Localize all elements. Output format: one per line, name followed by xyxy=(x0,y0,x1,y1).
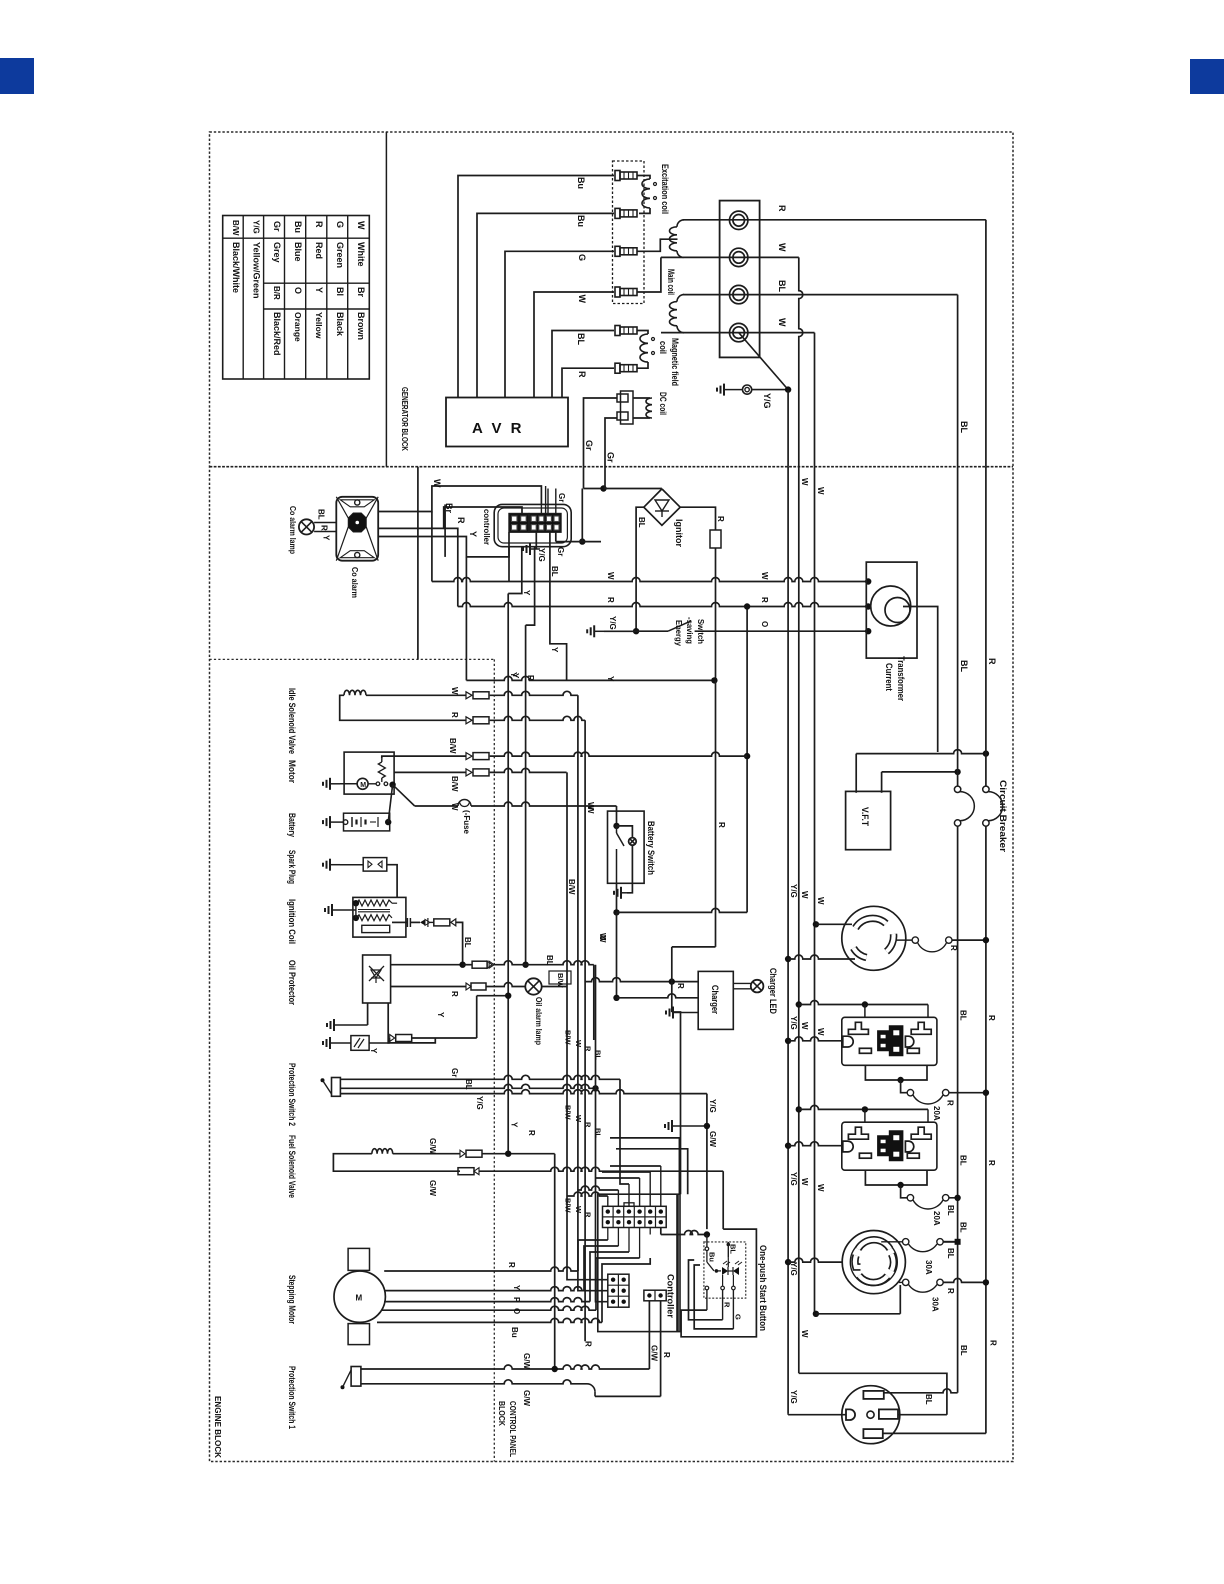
wire btn loop2 xyxy=(689,1260,723,1320)
battery switch box xyxy=(608,811,645,883)
wires 12pin routing xyxy=(567,1166,661,1196)
wire controller Gr down xyxy=(555,532,557,541)
label Y/G bus t1 xyxy=(789,884,798,898)
start button pins bottom xyxy=(705,1275,735,1290)
label R mid2 xyxy=(987,1160,996,1166)
label Gr2 xyxy=(606,452,616,463)
label W bus t7 xyxy=(800,1330,809,1338)
label R low xyxy=(989,1340,998,1346)
gen ground xyxy=(717,384,743,396)
label Idle Solenoid Valve xyxy=(287,688,297,754)
label Y/G bus t4 xyxy=(789,1262,798,1276)
svg-text:R: R xyxy=(584,1122,593,1128)
VFT box xyxy=(846,791,891,849)
svg-text:W: W xyxy=(586,806,595,814)
current transformer box xyxy=(866,562,917,658)
excitation connector (dashed) xyxy=(613,161,645,304)
label W fuse xyxy=(450,803,459,811)
wire oil R xyxy=(391,983,471,990)
wire R row main xyxy=(458,603,872,610)
label Y co xyxy=(322,535,331,541)
wire GW to controller xyxy=(647,1332,649,1369)
label W bus t3 xyxy=(800,1022,809,1030)
label Charger xyxy=(710,985,720,1014)
label W out xyxy=(777,243,787,252)
svg-text:BL: BL xyxy=(777,280,787,292)
svg-text:Y: Y xyxy=(369,1048,378,1054)
label R bus mid xyxy=(987,658,997,665)
wire VFT top xyxy=(856,750,989,793)
svg-text:Gr: Gr xyxy=(272,221,282,232)
svg-text:A V R: A V R xyxy=(472,420,524,437)
svg-text:BL: BL xyxy=(959,660,969,672)
label W row r xyxy=(760,572,769,580)
svg-text:Excitation coil: Excitation coil xyxy=(660,164,670,214)
svg-text:Y: Y xyxy=(314,287,324,293)
sensor conn xyxy=(390,996,477,1042)
svg-text:Bu: Bu xyxy=(708,1252,717,1262)
fuel conn GW2 xyxy=(458,1168,479,1175)
svg-text:Yellow: Yellow xyxy=(314,312,324,339)
svg-text:R: R xyxy=(314,221,324,228)
label P sm xyxy=(512,1297,521,1303)
label Bu wire1 xyxy=(576,177,586,189)
controller pin wires top xyxy=(541,486,555,514)
oil conn BL xyxy=(472,961,494,968)
svg-text:Y/G: Y/G xyxy=(789,884,798,898)
page corner blue mark right xyxy=(1190,59,1224,94)
label B/W motor1 xyxy=(448,738,457,754)
legend col Gr/Grey/B-R/Black-Red xyxy=(272,221,282,356)
svg-text:ENGINE BLOCK: ENGINE BLOCK xyxy=(213,1396,223,1459)
wire recept1 W xyxy=(813,921,852,927)
oil protector SCR xyxy=(369,966,384,983)
svg-text:(-Fuse: (-Fuse xyxy=(462,810,471,835)
svg-text:Co alarm lamp: Co alarm lamp xyxy=(288,506,298,554)
svg-text:Gr: Gr xyxy=(584,440,594,451)
label Bu btn xyxy=(708,1252,717,1262)
svg-text:W: W xyxy=(816,897,825,905)
svg-text:Bu: Bu xyxy=(576,215,586,227)
svg-text:Gr: Gr xyxy=(557,493,566,502)
svg-text:BL: BL xyxy=(729,1244,738,1254)
motor box xyxy=(344,752,394,794)
wire W2 to bus xyxy=(661,333,815,467)
svg-text:Spark Plug: Spark Plug xyxy=(287,850,297,884)
ign conn BL xyxy=(430,919,456,926)
svg-text:Transformer: Transformer xyxy=(896,656,906,701)
label G/W fuel2 xyxy=(428,1180,437,1196)
svg-text:Protection Switch 2: Protection Switch 2 xyxy=(287,1063,297,1126)
label Bu sm xyxy=(510,1327,519,1338)
label Energy-saving Switch xyxy=(674,617,706,646)
wire bsw to R vert xyxy=(617,603,751,912)
start button junction xyxy=(704,1231,710,1237)
wire idle W right xyxy=(490,691,578,695)
svg-text:Y: Y xyxy=(510,1122,519,1128)
wire recept3 left xyxy=(788,1413,846,1414)
svg-text:G/W: G/W xyxy=(428,1138,437,1154)
wire ignitor BL xyxy=(636,507,644,631)
duplex outlet 1 xyxy=(842,1017,937,1065)
outlet1 breaker 20A xyxy=(907,1090,989,1105)
svg-text:Y/G: Y/G xyxy=(789,1016,798,1030)
label R co wire2 xyxy=(456,517,466,524)
svg-text:Gr: Gr xyxy=(450,1068,459,1077)
ignition ground xyxy=(325,900,359,921)
recept1 breaker xyxy=(896,937,989,952)
charger box xyxy=(698,971,733,1029)
svg-text:White: White xyxy=(356,242,366,267)
svg-text:W: W xyxy=(816,1028,825,1036)
pin Bu2 xyxy=(615,208,637,218)
svg-text:Y: Y xyxy=(322,535,331,541)
ignition winding2 xyxy=(357,915,392,921)
ring terminal T1 xyxy=(730,211,748,229)
svg-text:Grey: Grey xyxy=(272,242,282,263)
label BL ps2 xyxy=(464,1079,473,1090)
wire Gr1 from DC coil xyxy=(584,398,618,467)
spark plug box xyxy=(363,858,387,872)
wire controller BL down xyxy=(549,532,551,581)
svg-text:O: O xyxy=(293,287,303,294)
wire R charger xyxy=(585,978,698,985)
svg-text:B/W: B/W xyxy=(450,776,459,792)
generator/engine horizontal divider xyxy=(210,466,1014,468)
ign spark gap xyxy=(420,918,430,927)
ps1 wire top xyxy=(361,1301,650,1372)
label W bsw xyxy=(586,806,595,814)
label R oil xyxy=(450,991,459,997)
wire recept2 YG xyxy=(785,1258,842,1265)
wires start button down xyxy=(707,1290,734,1329)
6pin connector xyxy=(608,1274,629,1307)
svg-text:W: W xyxy=(816,1184,825,1192)
svg-text:M: M xyxy=(360,782,366,789)
label 30A-2 xyxy=(931,1297,940,1312)
svg-text:Bl: Bl xyxy=(335,287,345,296)
engine block top border (dashed) xyxy=(210,658,495,660)
start button switch xyxy=(707,1251,721,1273)
label Protection Switch 2 xyxy=(287,1063,297,1126)
receptacle1 circle xyxy=(842,906,906,970)
receptacle2 circles xyxy=(842,1231,905,1294)
label R co xyxy=(320,525,329,531)
svg-text:20A: 20A xyxy=(932,1106,941,1121)
wire sensor out xyxy=(369,1038,390,1043)
label G/W ps1 bot xyxy=(522,1390,531,1406)
label R bus low xyxy=(527,1130,536,1136)
wire BL ign down xyxy=(456,922,463,964)
bus W bundle xyxy=(577,695,579,1262)
svg-text:B/W: B/W xyxy=(564,1198,573,1214)
outlet2 bottom taps xyxy=(865,1170,927,1198)
wire oil BL xyxy=(391,962,466,968)
wire Gr junction lower xyxy=(556,489,601,545)
current transformer circles xyxy=(871,586,911,626)
svg-text:Charger LED: Charger LED xyxy=(768,968,778,1014)
svg-text:-saving: -saving xyxy=(685,617,695,644)
label Excitation coil xyxy=(660,164,670,214)
ignition secondary box xyxy=(362,925,390,932)
label Spark Plug xyxy=(287,850,297,884)
wire Y mid3 xyxy=(465,556,467,558)
ignitor D1 xyxy=(644,489,680,525)
label Y sm xyxy=(512,1285,521,1291)
svg-text:G/W: G/W xyxy=(708,1131,717,1147)
label BL 30A xyxy=(946,1248,955,1259)
wire R dot down xyxy=(584,981,586,983)
pin mag BL xyxy=(615,326,637,336)
svg-text:R: R xyxy=(526,675,535,681)
battery switch ground xyxy=(614,887,631,899)
svg-text:Orange: Orange xyxy=(293,312,303,342)
mid ground xyxy=(665,1120,710,1132)
charger ground xyxy=(666,1007,698,1019)
svg-text:Stepping Motor: Stepping Motor xyxy=(287,1275,297,1324)
protection switch 1 sym xyxy=(341,1367,361,1390)
label 20A-1 xyxy=(932,1106,941,1121)
svg-text:Gr: Gr xyxy=(606,452,616,463)
label Fuse xyxy=(462,810,471,835)
receptacle1 slots xyxy=(854,918,894,957)
svg-text:W: W xyxy=(760,572,769,580)
wires 12pin down xyxy=(608,1228,650,1259)
stepping motor wires xyxy=(377,1240,650,1322)
wire BW elbow xyxy=(566,771,568,773)
label W gen2 xyxy=(816,487,825,495)
ring terminal T2 xyxy=(730,248,748,266)
svg-text:W: W xyxy=(800,1178,809,1186)
label Current Transformer xyxy=(884,656,906,701)
wire Y mid1 xyxy=(508,547,510,582)
wire charger R to controller xyxy=(672,982,681,1195)
svg-text:W: W xyxy=(574,1206,583,1214)
label Ignition Coil xyxy=(287,899,297,944)
oil sensor box xyxy=(351,1036,369,1051)
svg-text:Y/G: Y/G xyxy=(789,1390,798,1404)
svg-text:Yellow/Green: Yellow/Green xyxy=(252,242,262,299)
svg-text:Y/G: Y/G xyxy=(475,1096,484,1110)
receptacle3 prongs xyxy=(846,1391,898,1438)
protection switch 2 sym xyxy=(321,1078,341,1097)
svg-text:W: W xyxy=(356,221,366,230)
svg-text:BL: BL xyxy=(958,1155,967,1166)
svg-text:B/W: B/W xyxy=(564,1030,573,1046)
stepping motor circle xyxy=(334,1271,385,1322)
label W bus t2 xyxy=(816,897,825,905)
svg-text:BL: BL xyxy=(637,517,646,528)
outlet1 D wire xyxy=(785,1037,843,1044)
label coil xyxy=(658,341,668,354)
2pin connector xyxy=(644,1290,666,1301)
svg-text:CONTROL PANEL: CONTROL PANEL xyxy=(508,1401,518,1457)
bus BL bundle xyxy=(595,965,597,1277)
label controller xyxy=(482,509,492,546)
svg-text:Y: Y xyxy=(550,647,559,653)
svg-text:B/W: B/W xyxy=(567,879,576,895)
battery box xyxy=(344,813,390,831)
svg-text:Bu: Bu xyxy=(510,1327,519,1338)
svg-text:GENERATOR BLOCK: GENERATOR BLOCK xyxy=(400,387,410,452)
label Y midC xyxy=(511,673,520,679)
svg-text:Protection Switch 1: Protection Switch 1 xyxy=(287,1366,297,1429)
label R btn2 xyxy=(662,1352,671,1358)
wire co R down xyxy=(444,528,458,606)
wire BL row right xyxy=(494,961,594,1040)
wire Y row xyxy=(466,676,717,683)
label GENERATOR BLOCK xyxy=(400,387,410,452)
ps2 wire YG xyxy=(340,1090,707,1230)
wire R to bottom xyxy=(0,0,1,1)
label W bus t6 xyxy=(816,1184,825,1192)
AVR U1 box xyxy=(446,398,568,447)
label BL mid3 xyxy=(959,1222,968,1233)
wire 12pin loop right2 xyxy=(616,1149,688,1194)
svg-text:Idle Solenoid Valve: Idle Solenoid Valve xyxy=(287,688,297,754)
svg-text:BL: BL xyxy=(545,955,554,966)
wire Y nested xyxy=(550,582,567,681)
ring terminal T4 xyxy=(730,323,748,341)
battery switch blade xyxy=(617,826,625,883)
svg-text:BL: BL xyxy=(959,1222,968,1233)
label Y midA xyxy=(522,590,531,596)
svg-text:BL: BL xyxy=(317,509,326,520)
label Y row xyxy=(606,676,615,682)
label R mid1 xyxy=(987,1015,996,1021)
controller box xyxy=(598,1194,680,1331)
bus R vertical lower xyxy=(985,826,987,1433)
svg-text:G/W: G/W xyxy=(522,1353,531,1369)
svg-text:W: W xyxy=(450,803,459,811)
label W bus t4 xyxy=(816,1028,825,1036)
pin G xyxy=(615,246,637,256)
label Battery Switch xyxy=(646,821,656,875)
controller connector 4x2 xyxy=(529,514,561,533)
label W2 out xyxy=(777,318,787,327)
12pin connector xyxy=(603,1203,667,1228)
legend column divider xyxy=(385,132,387,467)
label R recept1 xyxy=(949,945,958,951)
label W row l xyxy=(606,572,615,580)
controller rounded box xyxy=(494,504,571,546)
label Y co wire xyxy=(468,531,478,537)
svg-text:Switch: Switch xyxy=(696,619,706,644)
co alarm body xyxy=(336,497,378,561)
label BL mid2 xyxy=(958,1155,967,1166)
svg-text:R: R xyxy=(987,658,997,665)
wire Gr to ignitor xyxy=(604,488,662,490)
svg-text:W: W xyxy=(606,572,615,580)
label BL 20A-2 xyxy=(946,1205,955,1216)
svg-text:Current: Current xyxy=(884,663,894,691)
bus BL vertical upper xyxy=(957,467,959,786)
label Gr mid xyxy=(557,493,566,502)
svg-text:R: R xyxy=(450,991,459,997)
wire ground YG xyxy=(739,333,792,467)
breaker pole BL xyxy=(954,786,974,826)
svg-text:R: R xyxy=(946,1100,955,1106)
svg-text:BL: BL xyxy=(594,1128,603,1138)
bus YG vertical xyxy=(787,467,789,1414)
svg-text:G/W: G/W xyxy=(522,1390,531,1406)
svg-text:R: R xyxy=(989,1340,998,1346)
gen ground bolt xyxy=(743,385,752,394)
label BL out xyxy=(777,280,787,292)
receptacle3 circle xyxy=(842,1386,900,1444)
label B/W bundle xyxy=(567,879,576,895)
outlet2 breaker 20A xyxy=(907,1195,961,1209)
pin Bu1 xyxy=(615,171,637,181)
label BL controller xyxy=(550,566,559,577)
outer page border (dotted) xyxy=(210,132,1014,1462)
svg-text:Black: Black xyxy=(335,312,345,337)
motor contacts xyxy=(368,781,388,786)
oil ground xyxy=(327,1003,368,1031)
svg-text:M: M xyxy=(356,1294,363,1303)
motor junction xyxy=(389,782,395,788)
label O sm xyxy=(512,1308,521,1314)
svg-text:B/W: B/W xyxy=(564,1105,573,1121)
label R out xyxy=(777,205,787,212)
label One-push Start Button xyxy=(758,1245,768,1331)
svg-text:R: R xyxy=(584,1046,593,1052)
svg-text:G: G xyxy=(577,254,587,261)
idle conn R xyxy=(466,717,489,724)
svg-text:Bu: Bu xyxy=(293,221,303,233)
wire ignitor R down xyxy=(715,548,717,680)
svg-text:B/W: B/W xyxy=(231,220,240,236)
label R idle xyxy=(450,712,459,718)
pin mag R xyxy=(615,363,637,373)
wire recept3 R xyxy=(883,1432,986,1434)
label Fuel Solenoid Valve xyxy=(287,1135,297,1198)
battery ground xyxy=(323,816,348,828)
wire Gr long xyxy=(584,467,607,492)
svg-text:O: O xyxy=(760,621,769,627)
svg-text:BL: BL xyxy=(924,1394,933,1405)
legend col B-W/Black-White xyxy=(231,220,241,293)
labels bundle row1 xyxy=(564,1030,603,1060)
svg-text:R: R xyxy=(320,525,329,531)
recept2 breaker BL xyxy=(881,1239,960,1252)
main coil upper xyxy=(670,220,685,258)
svg-text:Oil alarm lamp: Oil alarm lamp xyxy=(534,997,544,1045)
svg-text:30A: 30A xyxy=(924,1260,933,1275)
label Y/G bus t5 xyxy=(789,1390,798,1404)
label BL bus mid xyxy=(959,660,969,672)
svg-text:Magnetic field: Magnetic field xyxy=(670,338,680,386)
label Motor xyxy=(287,760,297,783)
spark plug ground xyxy=(323,859,363,871)
svg-text:R: R xyxy=(584,1341,593,1347)
label G/W btn xyxy=(649,1345,658,1361)
bus W2 vertical xyxy=(814,467,816,1314)
wire AVR-W xyxy=(534,292,614,398)
svg-text:Y/G: Y/G xyxy=(537,548,546,562)
oil sensor ground xyxy=(323,1037,351,1049)
label Gr controller xyxy=(556,547,565,556)
label Y/G controller xyxy=(537,548,546,562)
svg-text:Red: Red xyxy=(314,242,324,259)
motor conn BW1 xyxy=(466,753,489,760)
wire 12pin to start xyxy=(661,1228,707,1235)
label Y/G row xyxy=(608,616,617,630)
recept2 breaker R xyxy=(899,1278,989,1292)
svg-text:One-push Start Button: One-push Start Button xyxy=(758,1245,768,1331)
label Y/G bus t2 xyxy=(789,1016,798,1030)
svg-text:Motor: Motor xyxy=(287,760,297,783)
